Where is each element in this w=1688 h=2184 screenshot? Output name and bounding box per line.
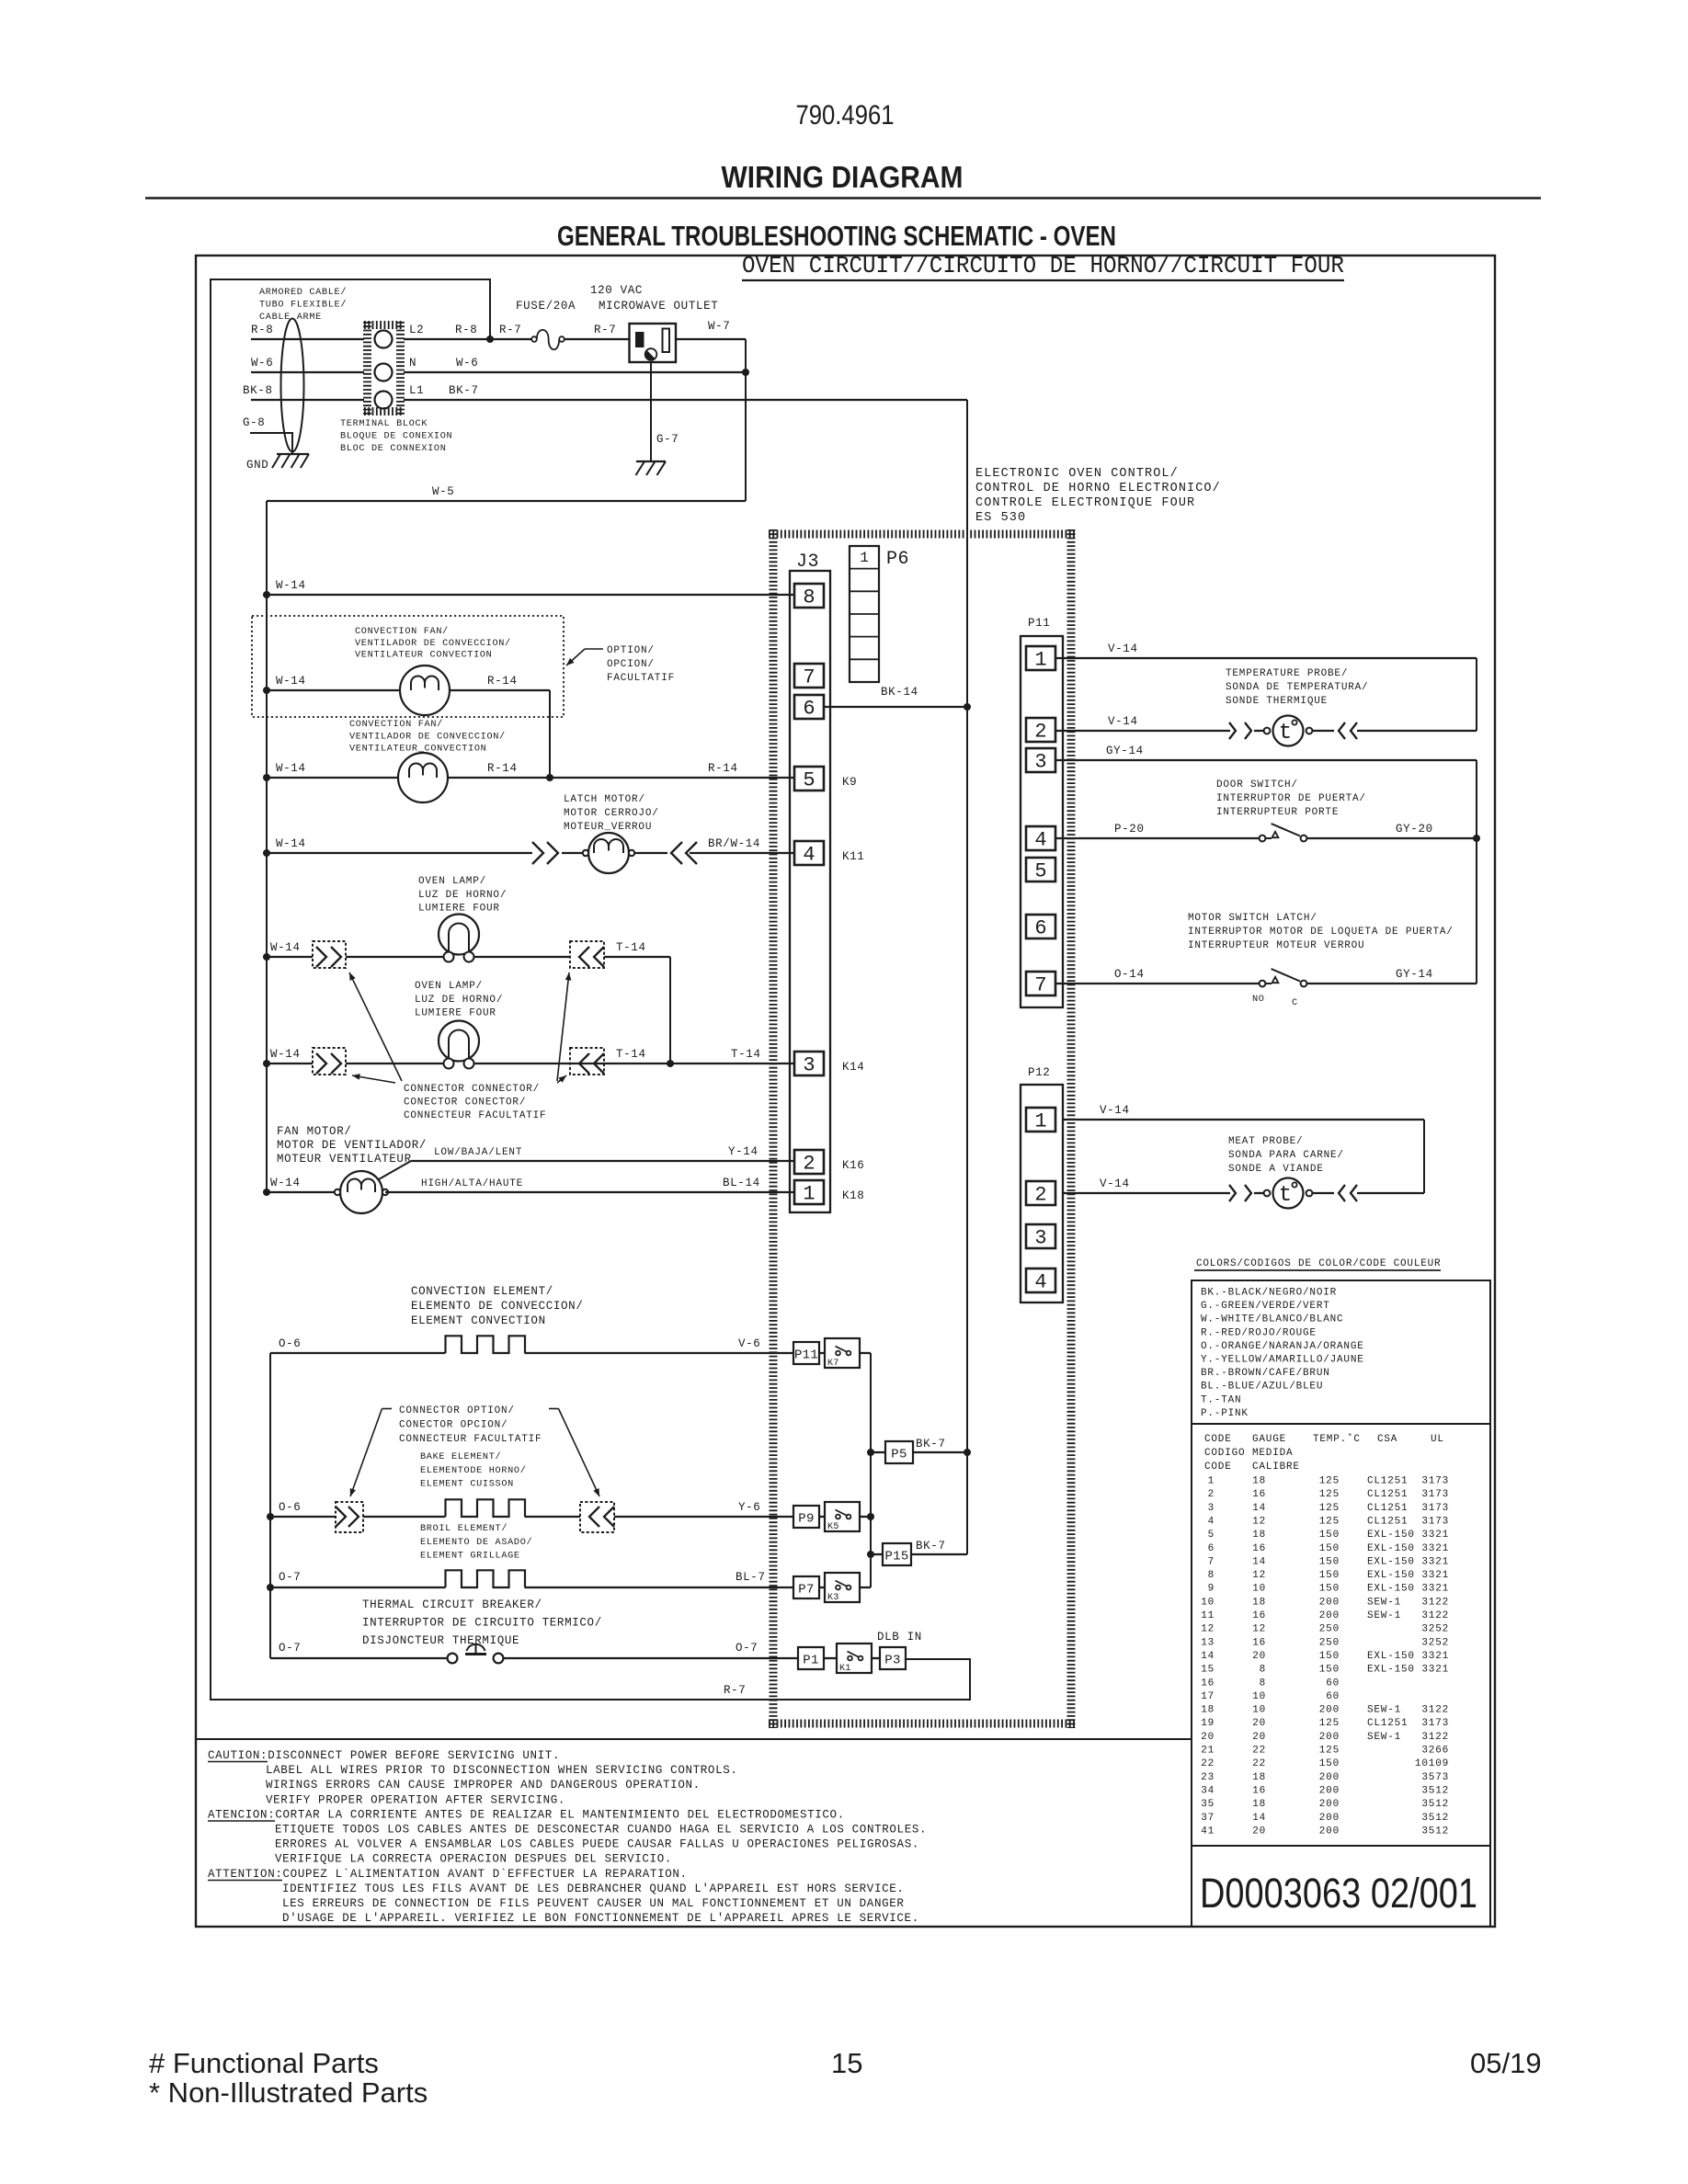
svg-text:3573: 3573 xyxy=(1421,1772,1449,1783)
node W-6 junction xyxy=(742,369,749,376)
svg-text:Y-14: Y-14 xyxy=(728,1145,758,1158)
motor convection fan 1 xyxy=(400,665,450,715)
option leader line xyxy=(585,648,603,650)
wire V-14 P11 pin2 to probe xyxy=(1055,730,1230,732)
svg-text:3122: 3122 xyxy=(1421,1610,1449,1621)
svg-text:2: 2 xyxy=(1208,1489,1215,1500)
svg-text:J3: J3 xyxy=(796,552,819,573)
svg-text:EXL-150: EXL-150 xyxy=(1367,1665,1415,1676)
svg-text:MEDIDA: MEDIDA xyxy=(1252,1448,1293,1459)
wire HIGH speed to J3 pin1 xyxy=(385,1191,794,1193)
wire K7 to relay bus xyxy=(860,1352,871,1354)
svg-text:W-14: W-14 xyxy=(276,837,306,850)
node R-8 junction xyxy=(486,336,494,343)
svg-text:# Functional Parts: # Functional Parts xyxy=(149,2047,379,2079)
svg-text:CONECTOR OPCION/: CONECTOR OPCION/ xyxy=(399,1420,508,1431)
svg-text:790.4961: 790.4961 xyxy=(796,100,895,131)
svg-text:WIRINGS ERRORS CAN CAUSE IMPRO: WIRINGS ERRORS CAN CAUSE IMPROPER AND DA… xyxy=(266,1779,701,1792)
svg-text:4: 4 xyxy=(1034,1271,1046,1294)
terminal block contact N xyxy=(375,364,393,381)
terminal block contact L1 xyxy=(375,392,393,409)
svg-text:14: 14 xyxy=(1252,1503,1266,1514)
svg-text:BL-14: BL-14 xyxy=(723,1177,760,1189)
svg-text:O-6: O-6 xyxy=(279,1337,301,1350)
motor switch latch xyxy=(1260,981,1266,987)
svg-text:EXL-150: EXL-150 xyxy=(1367,1556,1415,1567)
svg-text:GAUGE: GAUGE xyxy=(1252,1434,1286,1445)
connector dashed box lamp2 right xyxy=(570,1048,604,1075)
P12 pin 1 xyxy=(1026,1108,1055,1132)
svg-text:125: 125 xyxy=(1319,1746,1340,1757)
svg-text:BK-14: BK-14 xyxy=(881,686,918,699)
wire O-7 thermal breaker row xyxy=(270,1657,448,1659)
EOC board border right xyxy=(1067,529,1076,1728)
svg-text:3512: 3512 xyxy=(1421,1813,1449,1824)
leader to bake left connector xyxy=(382,1408,393,1410)
svg-text:4: 4 xyxy=(803,844,815,867)
wire Y-6 to relay P9 xyxy=(614,1516,793,1518)
svg-text:18: 18 xyxy=(1252,1597,1266,1608)
svg-text:TEMP.˚C: TEMP.˚C xyxy=(1313,1433,1361,1445)
svg-text:BLOQUE DE CONEXION: BLOQUE DE CONEXION xyxy=(340,432,452,442)
EOC board border bottom xyxy=(769,1720,1076,1728)
svg-text:CODIGO: CODIGO xyxy=(1204,1448,1245,1459)
svg-text:125: 125 xyxy=(1319,1516,1340,1527)
svg-text:UL: UL xyxy=(1431,1434,1444,1445)
wire gauge table box xyxy=(1192,1424,1490,1846)
J3 pin 3 xyxy=(794,1052,824,1075)
P11 pin 5 xyxy=(1026,858,1055,882)
P11 pin 2 xyxy=(1026,718,1055,742)
svg-text:CAUTION:DISCONNECT POWER BEFOR: CAUTION:DISCONNECT POWER BEFORE SERVICIN… xyxy=(208,1749,560,1762)
wire T-14 lamp1 xyxy=(474,956,571,958)
svg-text:O-6: O-6 xyxy=(279,1501,301,1514)
svg-text:ELEMENT CUISSON: ELEMENT CUISSON xyxy=(420,1480,514,1490)
svg-text:GY-20: GY-20 xyxy=(1396,823,1433,836)
svg-text:18: 18 xyxy=(1252,1476,1266,1487)
svg-text:T.-TAN: T.-TAN xyxy=(1201,1394,1241,1405)
svg-text:20: 20 xyxy=(1252,1826,1266,1837)
svg-text:CONTROLE ELECTRONIQUE FOUR: CONTROLE ELECTRONIQUE FOUR xyxy=(975,496,1195,510)
wire G-7 outlet to ground xyxy=(650,362,652,461)
EOC board border top xyxy=(769,530,1076,539)
svg-text:6: 6 xyxy=(1208,1543,1215,1554)
node fan riser junction xyxy=(546,774,553,781)
wire O bus vertical xyxy=(269,1353,271,1658)
temperature probe xyxy=(1264,728,1271,734)
svg-text:3122: 3122 xyxy=(1421,1732,1449,1743)
svg-text:120 VAC: 120 VAC xyxy=(590,284,643,297)
wire W-6 terminal to junction xyxy=(404,371,746,373)
svg-text:BR/W-14: BR/W-14 xyxy=(708,837,760,850)
svg-text:K3: K3 xyxy=(827,1593,839,1603)
svg-text:12: 12 xyxy=(1252,1624,1266,1635)
svg-text:GND: GND xyxy=(246,459,268,472)
svg-text:11: 11 xyxy=(1201,1610,1215,1621)
svg-text:3512: 3512 xyxy=(1421,1785,1449,1796)
leader to lamp2 right connector xyxy=(557,1075,566,1083)
connector dashed box lamp1 left xyxy=(313,941,346,968)
svg-text:FACULTATIF: FACULTATIF xyxy=(607,673,675,684)
svg-text:150: 150 xyxy=(1319,1584,1340,1595)
wire W-14 to J3 pin8 xyxy=(263,591,270,598)
wire W-14 to fan motor xyxy=(263,1189,270,1196)
svg-text:16: 16 xyxy=(1252,1489,1266,1500)
svg-text:3512: 3512 xyxy=(1421,1799,1449,1810)
relay K5 xyxy=(819,1516,825,1518)
wire R-8 to fuse xyxy=(404,338,531,340)
svg-text:CL1251: CL1251 xyxy=(1367,1503,1408,1514)
wire R-14 fan1 to riser xyxy=(450,689,550,691)
svg-text:19: 19 xyxy=(1201,1718,1215,1729)
svg-text:C: C xyxy=(1292,998,1298,1008)
wire GY-14 motor switch to riser xyxy=(1306,983,1477,984)
svg-text:EXL-150: EXL-150 xyxy=(1367,1651,1415,1662)
svg-text:16: 16 xyxy=(1252,1637,1266,1648)
node BK riser junction xyxy=(964,703,971,711)
svg-text:CONTROL DE HORNO ELECTRONICO/: CONTROL DE HORNO ELECTRONICO/ xyxy=(975,482,1221,495)
svg-text:ELECTRONIC OVEN CONTROL/: ELECTRONIC OVEN CONTROL/ xyxy=(975,467,1179,481)
svg-text:D'USAGE DE L'APPAREIL. VERIFIE: D'USAGE DE L'APPAREIL. VERIFIEZ LE BON F… xyxy=(282,1912,919,1925)
svg-text:3321: 3321 xyxy=(1421,1570,1449,1581)
svg-text:SEW-1: SEW-1 xyxy=(1367,1705,1401,1716)
svg-text:SEW-1: SEW-1 xyxy=(1367,1597,1401,1608)
svg-text:CSA: CSA xyxy=(1377,1434,1397,1445)
svg-text:3: 3 xyxy=(1034,751,1046,774)
svg-text:K7: K7 xyxy=(827,1359,839,1369)
wire GY-20 door switch to riser xyxy=(1306,837,1477,839)
plug P3 DLB IN xyxy=(872,1657,880,1659)
ground G-7 xyxy=(636,461,666,462)
svg-text:CONNECTEUR FACULTATIF: CONNECTEUR FACULTATIF xyxy=(404,1110,546,1121)
relay plug P9 xyxy=(793,1506,819,1528)
svg-text:NO: NO xyxy=(1252,995,1265,1005)
leader to bake right connector xyxy=(549,1408,559,1410)
svg-text:LUMIERE FOUR: LUMIERE FOUR xyxy=(415,1008,496,1019)
svg-text:CONNECTOR OPTION/: CONNECTOR OPTION/ xyxy=(399,1405,515,1416)
svg-text:EXL-150: EXL-150 xyxy=(1367,1584,1415,1595)
svg-text:V-14: V-14 xyxy=(1100,1104,1130,1117)
wire O-7 broil element row xyxy=(267,1584,274,1591)
svg-text:60: 60 xyxy=(1326,1678,1340,1689)
connector dashed box lamp2 left xyxy=(313,1048,346,1075)
svg-text:W-5: W-5 xyxy=(432,485,454,498)
connector dashed box bake left xyxy=(336,1502,363,1532)
wire lamp riser down xyxy=(669,957,671,1064)
svg-text:BROIL ELEMENT/: BROIL ELEMENT/ xyxy=(420,1523,508,1534)
node GY riser junction xyxy=(1473,835,1480,842)
wire T-14 lamp2 to J3 pin3 xyxy=(474,1063,795,1064)
svg-text:BK.-BLACK/NEGRO/NOIR: BK.-BLACK/NEGRO/NOIR xyxy=(1201,1288,1337,1299)
wire K3 to relay bus xyxy=(860,1587,871,1588)
svg-text:3: 3 xyxy=(803,1054,815,1077)
svg-text:1: 1 xyxy=(1034,649,1046,672)
svg-text:VENTILADOR DE CONVECCION/: VENTILADOR DE CONVECCION/ xyxy=(355,638,511,649)
J3 pin 7 xyxy=(794,664,824,688)
svg-text:3252: 3252 xyxy=(1421,1624,1449,1635)
motor latch xyxy=(588,833,629,873)
svg-text:2: 2 xyxy=(1034,721,1046,744)
svg-text:CABLE ARME: CABLE ARME xyxy=(259,313,322,323)
svg-text:BL.-BLUE/AZUL/BLEU: BL.-BLUE/AZUL/BLEU xyxy=(1201,1382,1323,1393)
svg-text:R.-RED/ROJO/ROUGE: R.-RED/ROJO/ROUGE xyxy=(1201,1327,1317,1338)
svg-text:Y-6: Y-6 xyxy=(738,1501,760,1514)
svg-text:37: 37 xyxy=(1201,1813,1215,1824)
svg-text:N: N xyxy=(409,357,416,370)
svg-text:FAN MOTOR/: FAN MOTOR/ xyxy=(277,1125,352,1138)
svg-text:1: 1 xyxy=(1208,1476,1215,1487)
heating element bake xyxy=(446,1499,526,1517)
svg-text:OPCION/: OPCION/ xyxy=(607,659,655,670)
svg-text:3: 3 xyxy=(1034,1227,1046,1250)
svg-text:3321: 3321 xyxy=(1421,1651,1449,1662)
svg-text:FUSE/20A: FUSE/20A xyxy=(516,300,576,313)
svg-text:22: 22 xyxy=(1252,1746,1266,1757)
svg-text:CONVECTION ELEMENT/: CONVECTION ELEMENT/ xyxy=(411,1285,553,1298)
svg-text:200: 200 xyxy=(1319,1705,1340,1716)
wire R-7 fuse to outlet xyxy=(565,338,630,340)
J3 pin 4 xyxy=(794,841,824,865)
svg-text:K14: K14 xyxy=(842,1061,864,1074)
J3 pin 1 xyxy=(794,1180,824,1204)
wire K5 to relay bus xyxy=(860,1516,871,1518)
svg-text:P9: P9 xyxy=(798,1512,814,1527)
svg-text:W-14: W-14 xyxy=(276,579,306,592)
wire fan1 riser down xyxy=(549,690,551,778)
wire W-7 outlet to right riser xyxy=(676,338,746,340)
svg-text:V-14: V-14 xyxy=(1108,643,1138,655)
svg-text:ELEMENTO DE CONVECCION/: ELEMENTO DE CONVECCION/ xyxy=(411,1300,583,1313)
relay K3 xyxy=(819,1587,825,1588)
svg-text:W-6: W-6 xyxy=(251,357,273,370)
svg-text:3173: 3173 xyxy=(1421,1516,1449,1527)
svg-text:WIRING DIAGRAM: WIRING DIAGRAM xyxy=(722,160,964,194)
svg-text:SONDA DE TEMPERATURA/: SONDA DE TEMPERATURA/ xyxy=(1226,682,1368,693)
svg-text:18: 18 xyxy=(1252,1799,1266,1810)
svg-text:20: 20 xyxy=(1252,1718,1266,1729)
wire W-14 to convection fan 1 xyxy=(263,687,270,694)
svg-text:P-20: P-20 xyxy=(1114,823,1145,836)
svg-text:1: 1 xyxy=(860,550,869,566)
svg-text:DISJONCTEUR THERMIQUE: DISJONCTEUR THERMIQUE xyxy=(362,1634,519,1647)
svg-text:MEAT PROBE/: MEAT PROBE/ xyxy=(1228,1136,1303,1147)
svg-text:200: 200 xyxy=(1319,1826,1340,1837)
svg-text:V-14: V-14 xyxy=(1100,1177,1130,1190)
svg-text:MOTEUR_VERROU: MOTEUR_VERROU xyxy=(564,822,652,833)
svg-text:INTERRUPTOR DE PUERTA/: INTERRUPTOR DE PUERTA/ xyxy=(1216,793,1366,804)
svg-text:O.-ORANGE/NARANJA/ORANGE: O.-ORANGE/NARANJA/ORANGE xyxy=(1201,1341,1364,1352)
svg-text:ELEMENT GRILLAGE: ELEMENT GRILLAGE xyxy=(420,1552,520,1562)
svg-text:CODE: CODE xyxy=(1204,1434,1232,1445)
wire R-8 left xyxy=(251,338,364,340)
svg-text:3173: 3173 xyxy=(1421,1476,1449,1487)
svg-text:CL1251: CL1251 xyxy=(1367,1516,1408,1527)
motor fan motor xyxy=(340,1171,382,1213)
wire O-7 to relay P1 xyxy=(504,1657,799,1659)
svg-text:ES 530: ES 530 xyxy=(975,511,1026,525)
svg-text:THERMAL CIRCUIT BREAKER/: THERMAL CIRCUIT BREAKER/ xyxy=(362,1598,542,1611)
svg-text:3173: 3173 xyxy=(1421,1718,1449,1729)
svg-text:MICROWAVE OUTLET: MICROWAVE OUTLET xyxy=(599,300,718,313)
leader to lamp1 right connector xyxy=(557,973,569,1081)
svg-text:17: 17 xyxy=(1201,1691,1215,1702)
svg-text:TUBO FLEXIBLE/: TUBO FLEXIBLE/ xyxy=(259,300,347,311)
svg-text:R-14: R-14 xyxy=(487,675,518,688)
svg-text:CONVECTION FAN/: CONVECTION FAN/ xyxy=(349,719,443,730)
plug P5 BK-7 xyxy=(867,1449,874,1456)
wire V-14 P12 pin1 loop xyxy=(1063,1119,1424,1120)
svg-text:INTERRUPTEUR PORTE: INTERRUPTEUR PORTE xyxy=(1216,807,1339,818)
svg-text:W.-WHITE/BLANCO/BLANC: W.-WHITE/BLANCO/BLANC xyxy=(1201,1314,1343,1325)
svg-text:OPTION/: OPTION/ xyxy=(607,645,655,656)
svg-text:3173: 3173 xyxy=(1421,1489,1449,1500)
svg-text:8: 8 xyxy=(1260,1678,1266,1689)
J3 pin 5 xyxy=(794,767,824,791)
svg-text:ATTENTION:COUPEZ L`ALIMENTATIO: ATTENTION:COUPEZ L`ALIMENTATION AVANT D`… xyxy=(208,1868,688,1881)
wire bake element xyxy=(363,1516,446,1518)
wire riser W-7 down to W-5 xyxy=(745,339,747,501)
svg-text:9: 9 xyxy=(1208,1584,1215,1595)
svg-text:R-7: R-7 xyxy=(724,1684,746,1697)
svg-text:W-14: W-14 xyxy=(276,675,306,688)
svg-text:COLORS/CODIGOS DE COLOR/CODE C: COLORS/CODIGOS DE COLOR/CODE COULEUR xyxy=(1196,1258,1441,1269)
svg-text:CONNECTEUR FACULTATIF: CONNECTEUR FACULTATIF xyxy=(399,1434,542,1445)
P12 pin 4 xyxy=(1026,1268,1055,1292)
svg-text:DLB IN: DLB IN xyxy=(877,1631,922,1644)
svg-text:LATCH MOTOR/: LATCH MOTOR/ xyxy=(564,794,645,805)
motor convection fan 2 xyxy=(398,753,448,802)
plug P15 BK-7 xyxy=(867,1551,874,1558)
svg-text:16: 16 xyxy=(1252,1785,1266,1796)
svg-text:35: 35 xyxy=(1201,1799,1215,1810)
wire W-14 to latch motor xyxy=(263,849,270,857)
svg-text:16: 16 xyxy=(1252,1610,1266,1621)
wire bake to right connector xyxy=(525,1516,581,1518)
svg-text:1: 1 xyxy=(1034,1110,1046,1133)
wire relay bus vertical xyxy=(870,1353,872,1587)
svg-text:CONVECTION FAN/: CONVECTION FAN/ xyxy=(355,626,449,637)
svg-text:18: 18 xyxy=(1201,1705,1215,1716)
svg-text:12: 12 xyxy=(1252,1570,1266,1581)
svg-text:VERIFIQUE LA CORRECTA OPERACIO: VERIFIQUE LA CORRECTA OPERACION DESPUES … xyxy=(275,1853,672,1866)
svg-text:W-14: W-14 xyxy=(270,1048,301,1061)
svg-text:BK-7: BK-7 xyxy=(449,384,479,397)
terminal block xyxy=(364,321,404,329)
svg-text:125: 125 xyxy=(1319,1503,1340,1514)
svg-text:LUZ DE HORNO/: LUZ DE HORNO/ xyxy=(418,890,507,901)
svg-text:3122: 3122 xyxy=(1421,1597,1449,1608)
svg-text:BK-8: BK-8 xyxy=(243,384,273,397)
svg-text:10: 10 xyxy=(1201,1597,1215,1608)
svg-text:3321: 3321 xyxy=(1421,1530,1449,1541)
svg-text:OVEN LAMP/: OVEN LAMP/ xyxy=(418,876,486,887)
svg-text:60: 60 xyxy=(1326,1691,1340,1702)
caution box xyxy=(196,1739,1192,1927)
svg-text:G-7: G-7 xyxy=(656,433,679,446)
svg-text:5: 5 xyxy=(803,769,815,792)
svg-text:3266: 3266 xyxy=(1421,1746,1449,1757)
svg-text:P5: P5 xyxy=(891,1448,907,1462)
svg-text:V-6: V-6 xyxy=(738,1337,760,1350)
P12 pin 2 xyxy=(1026,1181,1055,1205)
svg-text:150: 150 xyxy=(1319,1530,1340,1541)
wire R-14 fan2 to J3 pin5 xyxy=(448,777,794,779)
svg-text:ELEMENTO DE ASADO/: ELEMENTO DE ASADO/ xyxy=(420,1537,532,1548)
relay K7 xyxy=(819,1352,825,1354)
relay plug P11 xyxy=(793,1342,819,1364)
svg-text:BK-7: BK-7 xyxy=(916,1438,946,1450)
svg-text:41: 41 xyxy=(1201,1826,1215,1837)
P11 pin 6 xyxy=(1026,915,1055,938)
svg-text:O-7: O-7 xyxy=(279,1571,301,1584)
svg-text:3252: 3252 xyxy=(1421,1637,1449,1648)
svg-text:22: 22 xyxy=(1201,1758,1215,1769)
svg-text:150: 150 xyxy=(1319,1570,1340,1581)
svg-text:* Non-Illustrated Parts: * Non-Illustrated Parts xyxy=(149,2076,428,2109)
svg-text:SONDA PARA CARNE/: SONDA PARA CARNE/ xyxy=(1228,1150,1344,1161)
svg-text:ERRORES AL VOLVER A ENSAMBLAR: ERRORES AL VOLVER A ENSAMBLAR LOS CABLES… xyxy=(275,1838,919,1851)
node P5 junction xyxy=(964,1449,971,1456)
svg-text:GY-14: GY-14 xyxy=(1396,968,1433,981)
svg-text:10: 10 xyxy=(1252,1705,1266,1716)
svg-text:BLOC DE CONNEXION: BLOC DE CONNEXION xyxy=(340,444,447,454)
P12 pin 3 xyxy=(1026,1224,1055,1248)
svg-text:K18: K18 xyxy=(842,1189,864,1202)
svg-text:20: 20 xyxy=(1201,1732,1215,1743)
J3 pin 2 xyxy=(794,1150,824,1174)
svg-text:CL1251: CL1251 xyxy=(1367,1718,1408,1729)
svg-text:MOTOR DE VENTILADOR/: MOTOR DE VENTILADOR/ xyxy=(277,1139,427,1152)
door switch xyxy=(1260,836,1266,842)
P11 pin 7 xyxy=(1026,972,1055,995)
latch motor inline connector arrows xyxy=(532,842,543,864)
connector dashed box lamp1 right xyxy=(570,941,604,968)
heating element convection xyxy=(446,1336,526,1353)
svg-text:CALIBRE: CALIBRE xyxy=(1252,1462,1300,1473)
svg-text:ELEMENTODE HORNO/: ELEMENTODE HORNO/ xyxy=(420,1465,527,1476)
svg-text:O-7: O-7 xyxy=(736,1642,758,1655)
armored cable ellipse xyxy=(281,319,304,452)
wire BK-14 J3 pin6 to riser xyxy=(824,706,967,708)
wire O-6 convection element row xyxy=(270,1352,446,1354)
leader to lamp2 left connector xyxy=(352,1075,395,1083)
P11 pin 3 xyxy=(1026,748,1055,772)
svg-text:G.-GREEN/VERDE/VERT: G.-GREEN/VERDE/VERT xyxy=(1201,1301,1330,1312)
svg-text:2: 2 xyxy=(1034,1184,1046,1207)
node lamp riser junction xyxy=(667,1060,674,1067)
svg-text:K11: K11 xyxy=(842,850,864,863)
svg-text:R-7: R-7 xyxy=(594,324,616,336)
svg-text:5: 5 xyxy=(1034,860,1046,883)
svg-text:21: 21 xyxy=(1201,1746,1215,1757)
EOC board border left xyxy=(770,529,778,1728)
svg-text:LABEL ALL WIRES PRIOR TO DISCO: LABEL ALL WIRES PRIOR TO DISCONNECTION W… xyxy=(266,1764,738,1777)
svg-text:SEW-1: SEW-1 xyxy=(1367,1610,1401,1621)
svg-text:L2: L2 xyxy=(409,324,424,336)
schematic outer border xyxy=(196,256,1495,1927)
svg-text:LUZ DE HORNO/: LUZ DE HORNO/ xyxy=(415,995,503,1006)
svg-text:14: 14 xyxy=(1201,1651,1215,1662)
svg-text:ATENCION:CORTAR LA CORRIENTE A: ATENCION:CORTAR LA CORRIENTE ANTES DE RE… xyxy=(208,1808,845,1821)
svg-text:P3: P3 xyxy=(884,1654,900,1668)
svg-text:200: 200 xyxy=(1319,1597,1340,1608)
svg-text:T-14: T-14 xyxy=(731,1048,761,1061)
svg-text:EXL-150: EXL-150 xyxy=(1367,1570,1415,1581)
svg-text:20: 20 xyxy=(1252,1732,1266,1743)
svg-text:EXL-150: EXL-150 xyxy=(1367,1543,1415,1554)
svg-text:T-14: T-14 xyxy=(616,941,646,954)
wire W-14 to oven lamp 2 xyxy=(263,1060,270,1067)
